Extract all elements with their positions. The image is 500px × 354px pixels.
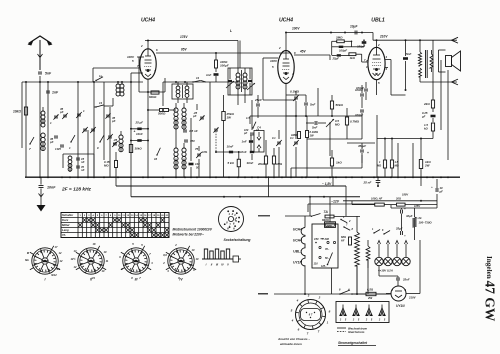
ground symbol bbox=[40, 189, 42, 197]
svg-text:2MΩ: 2MΩ bbox=[335, 36, 343, 40]
svg-text:500Ω: 500Ω bbox=[158, 112, 166, 116]
svg-text:0.7MΩ: 0.7MΩ bbox=[350, 120, 360, 124]
switch mains onoff bbox=[339, 293, 341, 295]
fuse 7A bbox=[325, 215, 334, 218]
svg-text:H: H bbox=[233, 228, 235, 231]
wire rail 45V bbox=[294, 54, 330, 56]
svg-text:1/4: 1/4 bbox=[91, 276, 95, 280]
coil L-osc4 bbox=[182, 148, 186, 152]
svg-text:1325: 1325 bbox=[55, 147, 61, 151]
capacitor 150pF bbox=[362, 41, 367, 44]
capacitor 5nF antenna bbox=[38, 71, 42, 73]
wire ground bus bbox=[25, 176, 460, 178]
capacitor 0.25uF bbox=[431, 115, 436, 118]
svg-text:UY1N: UY1N bbox=[396, 304, 405, 308]
svg-text:2W: 2W bbox=[367, 296, 373, 300]
svg-text:12½: 12½ bbox=[70, 257, 76, 261]
svg-text:125~: 125~ bbox=[321, 265, 327, 268]
svg-text:25μF: 25μF bbox=[395, 227, 403, 231]
svg-text:N/12: N/12 bbox=[51, 273, 57, 277]
svg-text:7A: 7A bbox=[324, 210, 329, 214]
heater chain tubes bbox=[293, 216, 305, 294]
svg-text:UCH4: UCH4 bbox=[141, 18, 155, 24]
pot 0.5MOhm volume bbox=[329, 122, 331, 124]
resistor 20 Ohm bbox=[397, 203, 406, 206]
svg-text:III: III bbox=[135, 278, 138, 282]
capacitor 25nF bus bbox=[376, 180, 381, 182]
resistor 1kOhm cath bbox=[330, 158, 333, 166]
switch mains bbox=[311, 216, 312, 217]
svg-text:1MΩ: 1MΩ bbox=[276, 162, 283, 166]
capacitor C4 label bbox=[254, 131, 264, 153]
resistor 2kOhm bbox=[431, 100, 434, 108]
capacitor 10nF mid bbox=[216, 151, 239, 153]
wire antenna to bus bbox=[39, 76, 41, 82]
coil L3 RF bbox=[116, 84, 120, 88]
svg-text:25μF: 25μF bbox=[332, 57, 340, 61]
wire 105V bbox=[391, 207, 437, 209]
tube UCH4 first bbox=[140, 18, 156, 80]
capacitor 1nF tube1 bbox=[214, 73, 219, 76]
wire grid line bbox=[131, 72, 143, 74]
wire mid verticals bbox=[103, 82, 105, 160]
capacitor 35pF 2 bbox=[108, 135, 112, 137]
svg-text:IV: IV bbox=[221, 263, 224, 267]
svg-text:85V: 85V bbox=[181, 48, 188, 52]
wire heater box bottom bbox=[331, 268, 333, 294]
svg-text:pF: pF bbox=[192, 114, 197, 118]
svg-text:20Ω: 20Ω bbox=[395, 196, 401, 200]
rotary switch disc II bbox=[78, 248, 104, 274]
trimmer C-ant1 bbox=[54, 115, 58, 117]
wire bus 3 bbox=[131, 196, 360, 198]
socket view chassis bbox=[296, 300, 326, 330]
switch lamp 2 bbox=[383, 233, 384, 234]
svg-text:2: 2 bbox=[391, 288, 394, 292]
trimmer C5 bbox=[106, 114, 110, 116]
svg-text:75: 75 bbox=[195, 147, 199, 151]
switch tap 2 bbox=[343, 226, 344, 227]
wire af verticals bbox=[317, 88, 319, 116]
resistor 100 Ohm HF bbox=[343, 200, 437, 202]
svg-text:1MΩ: 1MΩ bbox=[291, 133, 298, 137]
wire lower left loop bbox=[63, 153, 94, 155]
svg-text:210V: 210V bbox=[379, 35, 388, 39]
wire rail 85V bbox=[156, 52, 291, 54]
svg-text:10nF: 10nF bbox=[240, 150, 247, 154]
coil L5 wave trap bbox=[68, 156, 72, 160]
wire tube1 left box bbox=[139, 56, 144, 58]
table switch positions bbox=[61, 213, 169, 238]
svg-text:1kΩ: 1kΩ bbox=[336, 161, 342, 165]
capacitor 750 osc bbox=[184, 139, 188, 141]
rectifier tube UY1N bbox=[386, 286, 412, 308]
rotary switch disc I bbox=[32, 248, 58, 274]
svg-text:175V: 175V bbox=[180, 35, 188, 39]
capacitor 100pF r bbox=[360, 109, 364, 111]
svg-text:+: + bbox=[404, 234, 406, 238]
svg-text:5nF: 5nF bbox=[45, 72, 52, 76]
svg-text:180V: 180V bbox=[402, 193, 408, 197]
wire T2 down bbox=[239, 41, 241, 69]
svg-text:1.5 nF: 1.5 nF bbox=[189, 129, 198, 133]
resistor 10kOhm bbox=[25, 82, 27, 177]
capacitor 25nF rect bbox=[396, 277, 400, 279]
wire osc section top bbox=[163, 81, 238, 83]
svg-text:2: 2 bbox=[377, 43, 380, 47]
svg-text:Ansicht von Chassis –: Ansicht von Chassis – bbox=[277, 337, 310, 341]
svg-text:C4: C4 bbox=[257, 126, 261, 130]
wire mixer horizontals bbox=[263, 99, 296, 101]
trimmer osc bbox=[200, 116, 204, 118]
speaker bbox=[439, 50, 461, 72]
svg-text:1nF: 1nF bbox=[52, 91, 59, 95]
svg-text:60kΩ: 60kΩ bbox=[149, 95, 157, 99]
resistor 0.7MOhm bbox=[345, 117, 348, 125]
resistor 1MOhm b bbox=[272, 156, 275, 164]
svg-text:TA: TA bbox=[62, 233, 66, 237]
capacitor 10nF left2 bbox=[131, 140, 148, 142]
transformer mains winding bbox=[355, 232, 360, 266]
wire rail 210V bbox=[373, 39, 457, 41]
switch 16 bbox=[156, 154, 157, 155]
capacitor T2 left bbox=[228, 80, 232, 82]
svg-text:100μF: 100μF bbox=[220, 64, 229, 68]
svg-text:+: + bbox=[367, 151, 369, 155]
capacitor 35pF band bbox=[54, 135, 58, 137]
svg-text:Kurz: Kurz bbox=[62, 218, 69, 222]
wire tube1 bottom bbox=[147, 79, 149, 92]
wire heater box outline bbox=[312, 224, 338, 268]
svg-text:1nF: 1nF bbox=[206, 73, 212, 77]
coil L-osc2 bbox=[182, 108, 186, 112]
svg-text:218V: 218V bbox=[408, 296, 417, 300]
svg-text:Schalter: Schalter bbox=[62, 213, 74, 217]
svg-text:200: 200 bbox=[324, 237, 330, 241]
svg-text:14: 14 bbox=[196, 76, 200, 80]
capacitor 70nF bbox=[76, 165, 80, 167]
wire right col verticals bbox=[432, 40, 434, 100]
svg-text:0.1: 0.1 bbox=[272, 136, 276, 140]
capacitor 1nF mid bbox=[249, 140, 253, 143]
IF transformer T2 bbox=[228, 68, 252, 95]
svg-text:150: 150 bbox=[314, 237, 319, 241]
svg-text:5nF: 5nF bbox=[312, 126, 318, 130]
antenna bbox=[28, 36, 53, 70]
svg-text:III: III bbox=[216, 263, 218, 267]
capacitor 10nF ground bbox=[39, 185, 44, 187]
wire tube3 bottom bbox=[376, 80, 378, 96]
socket diagram Sockelschaltung bbox=[219, 207, 244, 232]
svg-text:pF: pF bbox=[49, 140, 54, 144]
svg-text:pF: pF bbox=[243, 131, 248, 135]
wire osc verticals bbox=[130, 82, 132, 177]
svg-text:μF: μF bbox=[421, 115, 426, 119]
svg-text:Lang: Lang bbox=[62, 228, 69, 232]
wire bus 2 bbox=[116, 185, 346, 187]
variable cap C4b bbox=[91, 128, 95, 130]
svg-text:1nF: 1nF bbox=[242, 140, 247, 144]
svg-text:10nF: 10nF bbox=[47, 186, 56, 190]
voltage selector panel bbox=[336, 302, 389, 323]
svg-text:pF: pF bbox=[59, 110, 64, 114]
coil L2 antenna bbox=[41, 133, 45, 137]
svg-text:Meßinstrument 10000Ω/V: Meßinstrument 10000Ω/V bbox=[173, 228, 213, 232]
switch S3 bbox=[99, 141, 100, 142]
capacitor 15nF bbox=[76, 157, 80, 159]
svg-text:Gleichstrom: Gleichstrom bbox=[348, 330, 365, 334]
svg-text:MΩ: MΩ bbox=[377, 164, 381, 168]
capacitor 25uF left bbox=[131, 128, 148, 130]
svg-text:UBL1: UBL1 bbox=[371, 18, 385, 24]
resistor 68 Ohm bbox=[349, 237, 352, 245]
capacitor 100nF r bbox=[360, 93, 364, 95]
svg-text:1W: 1W bbox=[310, 134, 315, 138]
capacitor 5nF out bbox=[403, 57, 408, 60]
svg-text:10kΩ: 10kΩ bbox=[13, 110, 21, 114]
wire heater feed bbox=[285, 215, 311, 217]
svg-text:100μF: 100μF bbox=[356, 86, 364, 90]
svg-text:120W: 120W bbox=[325, 224, 332, 228]
svg-text:+: + bbox=[431, 185, 433, 189]
wire lamps top bbox=[378, 244, 380, 257]
transformer output bbox=[418, 40, 433, 82]
wire tube2 top bbox=[285, 33, 287, 51]
svg-text:8 7: 8 7 bbox=[309, 313, 313, 317]
scale lamps bbox=[375, 257, 410, 265]
svg-text:I: I bbox=[45, 278, 46, 282]
trimmer C6 bbox=[113, 142, 117, 144]
wire af horizontals bbox=[286, 115, 296, 117]
svg-text:1kΩ: 1kΩ bbox=[350, 56, 356, 60]
capacitor 10uF rail bbox=[354, 31, 356, 35]
resistor 25kOhm 1W bbox=[222, 112, 225, 121]
trimmer osc2 bbox=[197, 153, 201, 155]
svg-text:10%: 10% bbox=[202, 150, 208, 154]
svg-text:H: H bbox=[227, 228, 229, 231]
svg-text:20kΩ: 20kΩ bbox=[257, 162, 266, 166]
svg-text:100V: 100V bbox=[127, 55, 135, 59]
tube UBL1 bbox=[368, 18, 385, 80]
svg-text:nF: nF bbox=[81, 168, 85, 172]
resistor 50kOhm bbox=[330, 101, 333, 109]
svg-text:+: + bbox=[404, 207, 406, 211]
resistor 1kOhm 2W bbox=[419, 160, 422, 169]
capacitor 100pF C4 bbox=[250, 132, 254, 134]
switch S2 bbox=[70, 141, 71, 142]
svg-text:Ingelen: Ingelen bbox=[485, 256, 493, 279]
svg-text:Dr.: Dr. bbox=[419, 216, 423, 220]
svg-text:50kΩ: 50kΩ bbox=[336, 103, 344, 107]
capacitor T2 right bbox=[248, 80, 252, 82]
svg-text:25 nF: 25 nF bbox=[363, 181, 372, 185]
wire misc right bbox=[397, 143, 399, 177]
svg-text:10nF: 10nF bbox=[136, 132, 143, 136]
svg-text:2: 2 bbox=[278, 46, 281, 50]
switch lamp 1 bbox=[373, 232, 374, 233]
svg-text:30kΩ: 30kΩ bbox=[135, 147, 143, 151]
resistor 500 Ohm bbox=[160, 109, 169, 112]
IF comb filter bbox=[202, 258, 233, 260]
resistor 1kOhm g1 bbox=[349, 53, 356, 56]
capacitor 0.1 b bbox=[294, 141, 298, 143]
transformer aux winding bbox=[366, 246, 370, 260]
svg-text:32μF: 32μF bbox=[406, 214, 413, 218]
legend Wechselstrom bbox=[337, 327, 346, 329]
svg-text:4: 4 bbox=[291, 72, 294, 76]
coil L-osc1 bbox=[174, 108, 178, 112]
svg-text:25 μF: 25 μF bbox=[135, 120, 144, 124]
capacitor 1.5nF osc bbox=[183, 129, 187, 131]
svg-text:47 GW: 47 GW bbox=[483, 281, 498, 322]
svg-text:35~: 35~ bbox=[325, 248, 330, 251]
svg-text:30nF: 30nF bbox=[247, 161, 254, 165]
switch 18 bbox=[252, 127, 253, 128]
variable cap C4a bbox=[83, 128, 87, 130]
svg-text:5 kΩ: 5 kΩ bbox=[228, 161, 235, 165]
resistor 5kOhm bbox=[237, 159, 240, 167]
svg-text:4: 4 bbox=[296, 299, 299, 303]
resistor 0.5 Ohm 2W bbox=[366, 292, 376, 295]
svg-text:Sockelschaltung: Sockelschaltung bbox=[224, 238, 252, 242]
svg-text:100–730Ω: 100–730Ω bbox=[419, 221, 433, 225]
wire rail 175V bbox=[145, 40, 238, 42]
wire b+ horizontals bbox=[377, 138, 433, 140]
svg-text:16: 16 bbox=[154, 157, 158, 161]
switch tap 1 bbox=[340, 219, 341, 220]
trimmer T2b bbox=[247, 83, 255, 90]
svg-text:HF: HF bbox=[341, 239, 345, 243]
wire tube2 bottom bbox=[285, 84, 287, 96]
capacitor 5nF af bbox=[314, 121, 316, 125]
switch 13 bbox=[95, 106, 96, 107]
wire tube2 left bbox=[263, 57, 278, 59]
resistor 1MOhm c bbox=[298, 132, 301, 139]
svg-text:45V: 45V bbox=[299, 50, 307, 54]
svg-text:105V: 105V bbox=[414, 204, 420, 208]
svg-text:UCH4: UCH4 bbox=[279, 18, 293, 24]
choke Dr 100-730 bbox=[412, 217, 416, 227]
svg-text:−12V: −12V bbox=[331, 200, 340, 204]
capacitor 100pF fb bbox=[339, 46, 344, 48]
resistor 0.15MOhm bbox=[115, 161, 118, 168]
tube UCH4 second bbox=[278, 18, 294, 84]
svg-text:Mo: Mo bbox=[25, 258, 29, 262]
resistor 0.1MOhm 1W bbox=[306, 131, 309, 138]
svg-text:690Ω: 690Ω bbox=[322, 218, 330, 222]
svg-text:2kΩ: 2kΩ bbox=[423, 102, 430, 106]
svg-text:L: L bbox=[230, 29, 232, 33]
svg-text:Stromartgeschaltet: Stromartgeschaltet bbox=[338, 341, 368, 345]
svg-text:8,6: 8,6 bbox=[163, 253, 167, 257]
capacitor 5nF t2 bbox=[304, 102, 308, 104]
legend Gleichstrom bbox=[337, 331, 346, 333]
svg-text:25nF: 25nF bbox=[402, 278, 410, 282]
svg-text:100pF: 100pF bbox=[339, 49, 347, 53]
svg-text:50~: 50~ bbox=[325, 257, 330, 260]
capacitor 10nF left bbox=[250, 151, 254, 153]
wire power drop bbox=[345, 186, 347, 216]
rotary switch disc IV bbox=[168, 248, 194, 274]
capacitor 1325pF bbox=[60, 144, 64, 146]
node junction dots on ground bus bbox=[39, 176, 449, 178]
svg-text:100Ω, HF: 100Ω, HF bbox=[371, 196, 383, 200]
svg-text:13: 13 bbox=[99, 101, 103, 105]
svg-text:4: 4 bbox=[291, 319, 294, 323]
svg-text:10μF: 10μF bbox=[350, 25, 358, 29]
resistor 2MOhm bbox=[337, 40, 345, 43]
resistor 100 Ohm anode bbox=[215, 60, 218, 68]
trimmer mid bbox=[214, 128, 218, 130]
capacitor 140 padding bbox=[189, 163, 194, 166]
wire out links bbox=[420, 81, 457, 83]
wire minus12 rail bbox=[308, 203, 375, 205]
resistor 30kOhm bbox=[129, 145, 132, 153]
capacitor 25uF b bbox=[400, 231, 402, 235]
svg-text:2: 2 bbox=[140, 44, 143, 48]
connector bottom right bbox=[452, 79, 459, 85]
capacitor 0.1 a bbox=[277, 141, 281, 143]
switch 14 bbox=[192, 81, 193, 82]
wire AVC line bbox=[250, 115, 362, 117]
svg-text:0.1MΩ: 0.1MΩ bbox=[290, 90, 300, 94]
capacitor 32uF bbox=[400, 210, 402, 214]
capacitor 25uF g bbox=[337, 54, 341, 56]
svg-text:68Ω: 68Ω bbox=[341, 235, 346, 239]
trimmer T2a bbox=[226, 81, 234, 88]
svg-text:− 1,8V: − 1,8V bbox=[322, 182, 332, 186]
coil L1 antenna bbox=[41, 111, 45, 115]
trimmer C3 bbox=[77, 113, 81, 115]
svg-text:100V: 100V bbox=[292, 27, 300, 31]
svg-text:wirkseite innen: wirkseite innen bbox=[280, 342, 302, 346]
svg-text:μF: μF bbox=[439, 190, 444, 194]
resistor 1.5MOhm bbox=[390, 160, 393, 168]
svg-text:110: 110 bbox=[314, 262, 319, 266]
svg-text:2: 2 bbox=[318, 296, 321, 300]
svg-text:0,5Ω: 0,5Ω bbox=[367, 288, 374, 292]
wire left verticals bbox=[47, 82, 49, 177]
coil L4 bbox=[119, 135, 123, 139]
svg-text:5nF: 5nF bbox=[310, 103, 316, 107]
resistor 1.5kOhm bbox=[431, 123, 434, 131]
svg-text:Mittel: Mittel bbox=[62, 223, 70, 227]
IF transformer T1 bbox=[172, 82, 193, 103]
coil L-osc3 bbox=[174, 148, 178, 152]
wire input box bbox=[93, 67, 139, 69]
svg-text:5nF: 5nF bbox=[406, 52, 412, 56]
switch heater 1 bbox=[327, 264, 329, 266]
svg-text:pF: pF bbox=[111, 119, 116, 123]
rotary switch disc III bbox=[123, 248, 149, 274]
capacitor 10uF main bbox=[435, 188, 437, 192]
resistor 1MOhm d bbox=[383, 160, 386, 168]
svg-text:4/1: 4/1 bbox=[55, 267, 60, 271]
wire stage verticals bbox=[209, 82, 211, 177]
svg-text:V: V bbox=[227, 263, 229, 267]
trimmer C-ant2 bbox=[63, 114, 67, 116]
svg-text:nF: nF bbox=[81, 160, 85, 164]
svg-text:Meßwerte bei 220V~: Meßwerte bei 220V~ bbox=[173, 233, 205, 237]
connector top right bbox=[452, 37, 459, 43]
svg-text:100V: 100V bbox=[270, 59, 278, 63]
resistor 60kOhm bbox=[151, 91, 159, 94]
svg-text:10nF: 10nF bbox=[227, 145, 234, 149]
svg-text:2F = 128 kHz: 2F = 128 kHz bbox=[61, 187, 92, 193]
switch S1 left bbox=[29, 143, 30, 144]
wire tube1 top to 175V rail bbox=[147, 41, 149, 49]
capacitor 1nF input bbox=[46, 90, 50, 92]
